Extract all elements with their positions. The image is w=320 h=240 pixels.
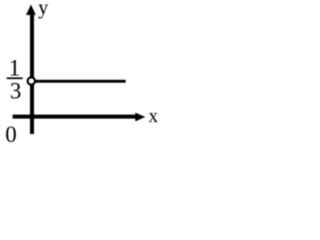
svg-text:y: y xyxy=(38,0,48,19)
svg-text:3: 3 xyxy=(10,79,22,104)
svg-text:x: x xyxy=(149,106,159,127)
x-axis arrowhead xyxy=(135,113,145,122)
y-axis xyxy=(30,10,34,134)
x-axis xyxy=(13,115,137,119)
svg-text:1: 1 xyxy=(9,55,20,80)
open circle at (0, 1/3) xyxy=(28,77,35,84)
horizontal line y = 1/3 xyxy=(35,80,126,83)
y-axis arrowhead xyxy=(26,5,36,16)
svg-text:0: 0 xyxy=(5,122,16,144)
fraction bar xyxy=(7,77,23,79)
